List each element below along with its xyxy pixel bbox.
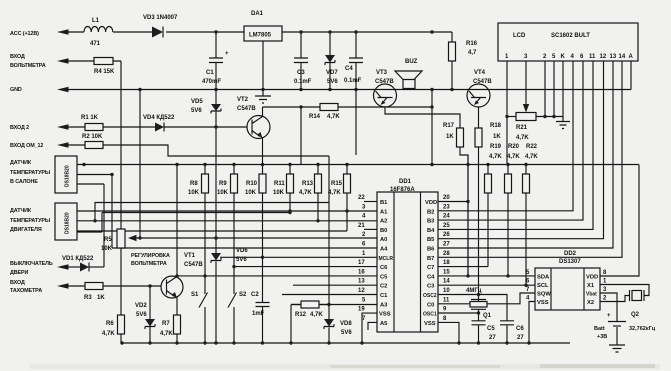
wire sensor2 pin1 row to A1 xyxy=(77,210,377,212)
svg-text:A3: A3 xyxy=(380,302,388,308)
svg-text:R21: R21 xyxy=(516,125,528,131)
pin numbers DD2 left xyxy=(526,270,530,302)
wire X1 to crystal right xyxy=(600,285,649,296)
svg-text:B6: B6 xyxy=(427,247,435,253)
diode VD3 1N4007 xyxy=(143,15,178,38)
svg-text:C547B: C547B xyxy=(237,106,256,112)
zener VD5 xyxy=(191,90,221,128)
svg-text:R22: R22 xyxy=(526,144,538,150)
svg-text:C5: C5 xyxy=(380,274,388,280)
svg-text:1K: 1K xyxy=(446,134,454,140)
svg-text:4,7: 4,7 xyxy=(468,50,477,56)
wire om12 column x329 xyxy=(328,156,330,343)
svg-text:4,7K: 4,7K xyxy=(507,154,520,160)
svg-text:C0: C0 xyxy=(427,302,434,308)
wire voltmeter divider column x121 xyxy=(120,61,122,343)
svg-text:4,7K: 4,7K xyxy=(102,331,115,337)
svg-text:R9: R9 xyxy=(219,181,227,187)
junction dots right xyxy=(466,200,527,315)
zener VD8 xyxy=(324,319,352,336)
svg-text:ДАТЧИК: ДАТЧИК xyxy=(10,160,32,166)
label regulator adjust xyxy=(131,253,170,267)
resistor R4 xyxy=(94,58,115,76)
node voltmeter input arrow xyxy=(10,54,69,69)
resistor R11 xyxy=(273,165,294,197)
svg-text:4,7K: 4,7K xyxy=(310,312,323,318)
wire ACC row xyxy=(65,32,452,42)
svg-text:OSC1: OSC1 xyxy=(423,312,437,318)
bottom scan smudge xyxy=(30,364,660,369)
svg-text:BUZ: BUZ xyxy=(405,59,418,65)
crystal Q1 xyxy=(466,288,492,319)
wire LCD pin3 column with wiper arrow xyxy=(523,61,529,113)
label R19 R20 R22 values xyxy=(489,144,538,160)
resistor R18 body xyxy=(475,123,502,147)
svg-text:C2: C2 xyxy=(251,292,259,298)
svg-text:Vbat: Vbat xyxy=(586,292,597,298)
svg-text:C7: C7 xyxy=(427,265,434,271)
svg-text:13: 13 xyxy=(358,279,365,285)
svg-text:C2: C2 xyxy=(380,284,387,290)
svg-text:27: 27 xyxy=(517,335,524,341)
svg-text:LM7805: LM7805 xyxy=(249,33,272,39)
svg-text:A2: A2 xyxy=(380,219,387,225)
capacitor C2 xyxy=(251,193,270,343)
svg-text:VD2: VD2 xyxy=(135,303,147,309)
svg-text:470mF: 470mF xyxy=(202,79,221,85)
svg-text:VSS: VSS xyxy=(424,321,436,327)
svg-text:23: 23 xyxy=(443,204,450,210)
wire LCD pin13 to B6 xyxy=(438,61,613,248)
transistor VT2 C547B xyxy=(237,97,270,139)
wire sensor2 pin2 row to A2 xyxy=(77,220,377,222)
junction dots top rail xyxy=(214,30,433,33)
svg-text:ВЫКЛЮЧАТЕЛЬ: ВЫКЛЮЧАТЕЛЬ xyxy=(10,261,53,267)
svg-text:0.1mF: 0.1mF xyxy=(344,78,362,84)
svg-text:28: 28 xyxy=(443,251,450,257)
wire C1 row xyxy=(282,294,377,296)
svg-text:24: 24 xyxy=(443,214,450,220)
wire VDD to bus corner xyxy=(438,155,468,276)
resistor R14 xyxy=(309,104,340,121)
wire R11 bottom column xyxy=(289,193,291,213)
resistor R20 body xyxy=(505,165,512,277)
svg-text:B0: B0 xyxy=(380,228,387,234)
svg-text:5V6: 5V6 xyxy=(341,330,352,336)
zener VD7 xyxy=(325,32,338,90)
node ВХОД ОМ_12 arrow xyxy=(10,142,69,149)
svg-text:12: 12 xyxy=(358,288,365,294)
wire sensor2 pin2 jog up to B1 row xyxy=(95,203,329,221)
svg-text:1K: 1K xyxy=(493,134,501,140)
svg-text:R3: R3 xyxy=(84,295,92,301)
svg-text:R12: R12 xyxy=(295,312,307,318)
svg-text:R8: R8 xyxy=(190,181,198,187)
svg-text:14: 14 xyxy=(443,279,450,285)
svg-text:C4: C4 xyxy=(427,274,435,280)
svg-text:18: 18 xyxy=(443,260,450,266)
wire B1 stub xyxy=(364,201,377,203)
resistor R9 xyxy=(217,165,238,197)
wire Vbat to battery xyxy=(600,293,617,321)
svg-text:DS1307: DS1307 xyxy=(559,259,581,265)
resistor R15 xyxy=(328,165,351,197)
svg-text:LCD: LCD xyxy=(513,33,526,39)
svg-text:C5: C5 xyxy=(487,326,495,332)
svg-text:C3: C3 xyxy=(427,284,435,290)
node ACC input arrow xyxy=(10,29,69,37)
svg-text:VD4 КД522: VD4 КД522 xyxy=(143,115,175,121)
node door switch arrow xyxy=(10,261,69,276)
wire SQW to C0 xyxy=(438,293,535,304)
svg-text:A: A xyxy=(629,54,634,60)
transistor VT1 C547B xyxy=(161,253,203,299)
wire LCD pin1 column xyxy=(506,61,508,165)
svg-text:27: 27 xyxy=(489,335,496,341)
svg-text:10K: 10K xyxy=(101,246,113,252)
svg-text:4,7K: 4,7K xyxy=(525,154,538,160)
node tachometer arrow xyxy=(10,280,69,294)
svg-text:14: 14 xyxy=(619,54,626,60)
wire GND long rail xyxy=(65,61,631,90)
svg-text:VSS: VSS xyxy=(379,312,391,318)
wire LCD pin2 column xyxy=(544,61,546,117)
wire R15 bottom column xyxy=(77,193,347,231)
zener VD2 xyxy=(135,286,155,343)
svg-text:5V6: 5V6 xyxy=(136,312,147,318)
svg-text:ВХОД 2: ВХОД 2 xyxy=(10,125,29,131)
svg-text:A1: A1 xyxy=(380,209,388,215)
svg-text:471: 471 xyxy=(90,41,101,47)
svg-text:VDD: VDD xyxy=(425,200,437,206)
svg-text:15: 15 xyxy=(443,269,450,275)
svg-text:4,7K: 4,7K xyxy=(299,190,312,196)
wire VT1 emitter to R7 xyxy=(176,297,178,315)
wire B0 stub xyxy=(364,228,377,230)
svg-text:+: + xyxy=(225,51,229,57)
svg-text:ВХОД: ВХОД xyxy=(10,54,25,60)
svg-text:10: 10 xyxy=(443,288,450,294)
potentiometer R21 xyxy=(516,113,536,142)
resistor R10 xyxy=(245,165,266,197)
junction dots bus xyxy=(82,163,527,166)
svg-text:26: 26 xyxy=(443,232,450,238)
svg-text:R6: R6 xyxy=(106,321,114,327)
svg-text:4,7K: 4,7K xyxy=(489,154,502,160)
svg-text:ТАХОМЕТРА: ТАХОМЕТРА xyxy=(10,288,42,294)
wire VT3 emitter to R17 xyxy=(385,107,460,129)
wire R13 bottom column xyxy=(317,193,319,221)
diode VD1 xyxy=(62,256,104,272)
rtc DD2 DS1307 xyxy=(535,251,600,310)
wire DS1307 VSS to ground xyxy=(529,302,535,344)
resistor R8 xyxy=(188,165,209,197)
svg-text:19: 19 xyxy=(358,307,365,313)
wire VT1 collector column to bus xyxy=(176,165,178,277)
wire LCD pin14 to B7 xyxy=(438,61,622,257)
svg-text:C1: C1 xyxy=(380,293,388,299)
wire VT2 emitter down to bus xyxy=(262,137,264,165)
wire VT4 emitter to R18 xyxy=(478,107,480,129)
svg-text:17: 17 xyxy=(358,260,365,266)
svg-text:Q2: Q2 xyxy=(631,312,640,318)
svg-text:VT2: VT2 xyxy=(237,97,249,103)
svg-text:B7: B7 xyxy=(427,256,434,262)
resistor R19 body xyxy=(485,174,492,193)
sensor DS18B20 salon xyxy=(10,156,77,193)
wire C7 row to R19 xyxy=(438,165,488,267)
wire voltmeter row xyxy=(65,60,121,62)
svg-text:21: 21 xyxy=(358,223,365,229)
svg-text:R10: R10 xyxy=(246,181,258,187)
svg-text:VT3: VT3 xyxy=(376,70,388,76)
svg-text:4,7K: 4,7K xyxy=(327,114,340,120)
wire C5 row buttons xyxy=(177,275,377,277)
resistor R12 xyxy=(291,301,329,318)
wire R2 output jog to x329 column xyxy=(103,145,329,156)
svg-text:GND: GND xyxy=(10,87,22,93)
junction dots middle rows xyxy=(93,173,348,306)
resistor R17 xyxy=(443,123,464,147)
svg-text:27: 27 xyxy=(443,242,450,248)
resistor R6 xyxy=(102,315,125,337)
svg-text:C4: C4 xyxy=(345,66,353,72)
svg-text:ТЕМПЕРАТУРЫ: ТЕМПЕРАТУРЫ xyxy=(10,218,50,224)
wire R21 right to ground xyxy=(536,116,563,118)
svg-text:10K: 10K xyxy=(217,190,229,196)
junction dots ground bus xyxy=(120,341,530,344)
capacitor C5 xyxy=(472,321,497,343)
svg-text:VD1 КД522: VD1 КД522 xyxy=(62,256,94,262)
svg-text:DD1: DD1 xyxy=(399,179,412,185)
svg-text:X1: X1 xyxy=(587,283,595,289)
svg-text:R18: R18 xyxy=(490,123,502,129)
svg-text:12: 12 xyxy=(600,54,607,60)
wire Q1 bottom to C5 xyxy=(478,309,480,321)
svg-text:ВХОД ОМ_12: ВХОД ОМ_12 xyxy=(10,143,43,149)
svg-text:S2: S2 xyxy=(239,292,247,298)
resistor R16 xyxy=(449,41,478,90)
svg-text:0.1mF: 0.1mF xyxy=(294,79,312,85)
svg-text:VT4: VT4 xyxy=(474,70,486,76)
svg-text:VD6: VD6 xyxy=(236,248,248,254)
junction dots gnd rail xyxy=(138,88,453,91)
svg-text:DS18B20: DS18B20 xyxy=(65,212,71,234)
wire sensor1 pin3 row to VD1 column xyxy=(77,184,104,267)
svg-text:16: 16 xyxy=(358,269,365,275)
wire DA1 ground lead xyxy=(262,41,264,96)
svg-text:VDD: VDD xyxy=(586,275,598,281)
pin numbers DD1 left xyxy=(358,195,366,322)
svg-text:DD2: DD2 xyxy=(564,251,577,257)
ground at LCD K xyxy=(556,122,570,129)
svg-text:C1: C1 xyxy=(206,70,214,76)
wire OSC2 row xyxy=(438,294,479,296)
svg-text:VD5: VD5 xyxy=(191,99,203,105)
diode VD4 xyxy=(103,115,175,132)
svg-text:SC1602 BULT: SC1602 BULT xyxy=(551,33,590,39)
svg-text:R20: R20 xyxy=(508,144,520,150)
wire R18 bottom long column to crystal xyxy=(478,147,480,302)
pin numbers DD1 right xyxy=(443,195,450,322)
wire X2 to crystal left xyxy=(600,296,630,302)
node GND arrow xyxy=(10,87,69,93)
wire C3 collector branch column xyxy=(300,107,302,165)
inductor L1 xyxy=(84,18,113,47)
svg-text:11: 11 xyxy=(589,54,596,60)
svg-text:A4: A4 xyxy=(380,247,388,253)
resistor R13 xyxy=(299,165,322,197)
svg-text:ДВИГАТЕЛЯ: ДВИГАТЕЛЯ xyxy=(10,227,42,233)
svg-text:ACC (+12B): ACC (+12B) xyxy=(10,31,39,37)
svg-text:4,7K: 4,7K xyxy=(160,331,173,337)
svg-text:B2: B2 xyxy=(427,209,434,215)
svg-text:R15: R15 xyxy=(331,181,343,187)
sensor DS18B20 engine xyxy=(10,203,77,240)
svg-text:A0: A0 xyxy=(380,237,387,243)
transistor VT4 C547B xyxy=(467,70,492,107)
svg-text:C547B: C547B xyxy=(375,79,394,85)
wire LCD pin12 to B5 xyxy=(438,61,604,239)
switch S2 xyxy=(228,193,247,343)
svg-text:20: 20 xyxy=(443,195,450,201)
svg-text:C3: C3 xyxy=(297,70,305,76)
svg-text:+: + xyxy=(607,313,611,319)
svg-text:R1 1K: R1 1K xyxy=(81,115,99,121)
svg-text:R14: R14 xyxy=(309,114,321,120)
wire R3 to VT1 base xyxy=(103,285,161,287)
microcontroller DD1 16F876A xyxy=(377,179,438,332)
wire LCD pin K column xyxy=(562,61,564,122)
wire clamp column x216 xyxy=(215,127,217,343)
svg-text:ДАТЧИК: ДАТЧИК xyxy=(10,208,32,214)
svg-text:C6: C6 xyxy=(516,326,524,332)
svg-text:C547B: C547B xyxy=(473,79,492,85)
svg-text:S1: S1 xyxy=(191,292,199,298)
svg-text:B5: B5 xyxy=(427,237,435,243)
svg-text:5V6: 5V6 xyxy=(191,108,202,114)
switch S1 xyxy=(191,193,208,343)
wire R14 right to VT4 base column xyxy=(338,90,432,165)
svg-text:X2: X2 xyxy=(587,300,594,306)
svg-text:C6: C6 xyxy=(380,265,388,271)
svg-text:SCL: SCL xyxy=(537,283,549,289)
crystal Q2 xyxy=(629,290,656,332)
svg-text:16F876A: 16F876A xyxy=(390,187,415,193)
capacitor C4 xyxy=(344,32,363,155)
svg-text:10K: 10K xyxy=(245,190,257,196)
capacitor C1 xyxy=(202,32,229,90)
svg-text:РЕГУЛИРОВКА: РЕГУЛИРОВКА xyxy=(131,253,170,259)
wire C6 row xyxy=(234,266,377,268)
resistor R7 xyxy=(160,315,181,343)
capacitor C3 xyxy=(294,32,312,90)
ground under battery xyxy=(609,345,625,352)
wire PIC right VSS to ground xyxy=(438,322,459,343)
regulator DA1 LM7805 xyxy=(244,11,282,41)
svg-text:C547B: C547B xyxy=(184,262,203,268)
svg-text:R17: R17 xyxy=(443,123,455,129)
svg-text:MCLR: MCLR xyxy=(379,256,394,262)
svg-text:ВОЛЬТМЕТРА: ВОЛЬТМЕТРА xyxy=(10,63,46,69)
svg-text:R7: R7 xyxy=(162,321,170,327)
svg-text:11: 11 xyxy=(443,297,450,303)
svg-text:ДВЕРИ: ДВЕРИ xyxy=(10,270,29,276)
svg-text:Batt: Batt xyxy=(594,326,605,332)
svg-text:R19: R19 xyxy=(490,144,502,150)
svg-text:L1: L1 xyxy=(92,18,100,24)
zener VD6 xyxy=(211,248,248,263)
wire LCD pin5 column xyxy=(553,61,555,117)
svg-text:R11: R11 xyxy=(274,181,285,187)
svg-text:VD7: VD7 xyxy=(326,70,338,76)
svg-text:ВОЛЬТМЕТРА: ВОЛЬТМЕТРА xyxy=(131,261,167,267)
battery Batt +3B xyxy=(594,313,626,345)
resistor R3 xyxy=(65,283,105,302)
wire R21 left to pin1 column xyxy=(507,116,516,118)
svg-text:K: K xyxy=(561,54,566,60)
svg-text:R4 15K: R4 15K xyxy=(94,69,115,75)
wire LCD pin4 to B2 xyxy=(438,61,573,211)
capacitor C6 xyxy=(479,295,525,344)
wire sensor1 pin2 column to A4 row xyxy=(112,175,377,249)
ground under DA1 xyxy=(255,96,271,103)
node ВХОД 2 arrow xyxy=(10,124,69,131)
svg-text:R2 10K: R2 10K xyxy=(82,134,103,140)
svg-text:VD3 1N4007: VD3 1N4007 xyxy=(143,15,178,21)
svg-text:SQW: SQW xyxy=(537,292,551,298)
svg-text:13: 13 xyxy=(610,54,617,60)
svg-text:5V6: 5V6 xyxy=(236,257,247,263)
wire VD4 to VT2 base xyxy=(164,126,247,128)
svg-text:1K: 1K xyxy=(97,295,105,301)
svg-text:B1: B1 xyxy=(380,200,388,206)
junction dots misc top xyxy=(214,105,555,128)
svg-text:5V6: 5V6 xyxy=(327,79,338,85)
svg-text:22: 22 xyxy=(358,195,365,201)
wire R5 wiper row to A0 xyxy=(135,90,377,239)
wire A3 row xyxy=(291,305,377,344)
svg-text:R16: R16 xyxy=(466,41,478,47)
svg-text:B3: B3 xyxy=(427,219,435,225)
svg-text:R5: R5 xyxy=(104,237,112,243)
display LCD SC1602 BULT xyxy=(498,23,638,61)
svg-text:SDA: SDA xyxy=(537,275,550,281)
wire sensor2 pin3 jog row xyxy=(77,213,290,233)
wire main ground bus xyxy=(122,342,570,344)
resistor R22 body xyxy=(523,165,530,286)
wire LCD pin11 to B4 xyxy=(438,61,593,229)
svg-text:DS18B20: DS18B20 xyxy=(65,165,71,187)
transistor VT3 C547B xyxy=(374,70,397,107)
wire sensor1 pin2 row xyxy=(77,174,112,176)
wire VT2 collector to R14 row xyxy=(263,107,321,117)
wire R17 bottom to SDA row xyxy=(460,147,468,276)
svg-text:1mF: 1mF xyxy=(252,311,265,317)
svg-text:A5: A5 xyxy=(380,321,388,327)
svg-text:10K: 10K xyxy=(188,190,200,196)
wire PIC left VSS A5 to ground xyxy=(362,313,377,343)
svg-text:25: 25 xyxy=(443,223,450,229)
buzzer BUZ xyxy=(395,59,422,89)
svg-text:VD8: VD8 xyxy=(340,321,352,327)
svg-text:32,762кГц: 32,762кГц xyxy=(629,326,656,332)
svg-text:10K: 10K xyxy=(273,190,285,196)
svg-text:+3В: +3В xyxy=(597,334,607,340)
svg-text:R13: R13 xyxy=(302,181,314,187)
resistor R1 xyxy=(65,115,103,131)
svg-text:B4: B4 xyxy=(427,228,435,234)
